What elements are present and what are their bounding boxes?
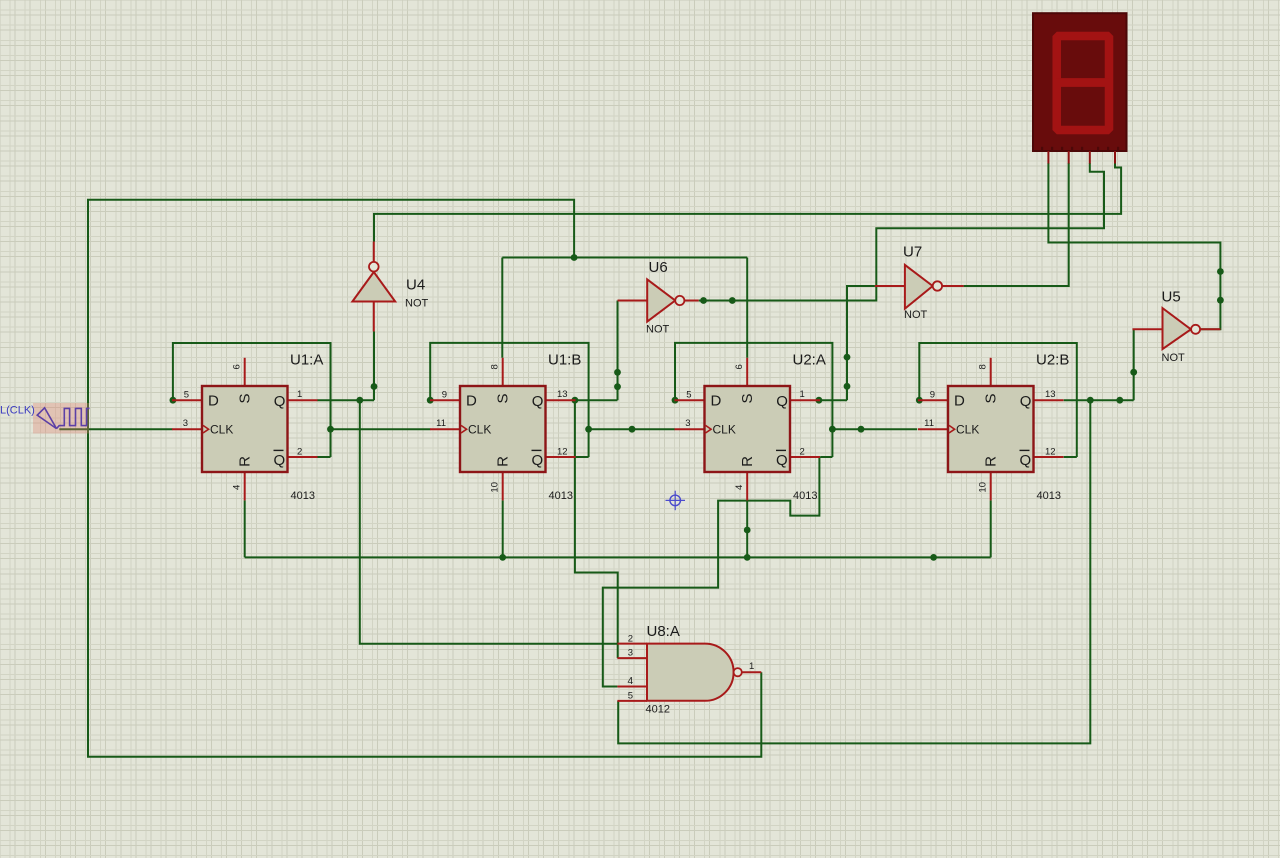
- svg-text:2: 2: [800, 447, 805, 458]
- svg-text:2: 2: [628, 634, 633, 645]
- svg-text:NOT: NOT: [646, 324, 670, 336]
- svg-text:U4: U4: [406, 277, 425, 294]
- svg-text:11: 11: [436, 418, 446, 429]
- svg-text:Q: Q: [532, 452, 544, 469]
- svg-text:D: D: [466, 393, 477, 410]
- svg-text:9: 9: [442, 389, 447, 400]
- svg-text:5: 5: [686, 389, 691, 400]
- svg-text:R: R: [237, 456, 254, 467]
- svg-text:Q: Q: [274, 393, 286, 410]
- svg-text:CLK: CLK: [713, 423, 736, 437]
- svg-text:4: 4: [627, 676, 633, 687]
- svg-text:12: 12: [1045, 447, 1056, 458]
- svg-text:9: 9: [930, 389, 935, 400]
- svg-text:Q: Q: [1020, 393, 1032, 410]
- svg-text:NOT: NOT: [1162, 352, 1186, 364]
- svg-text:10: 10: [978, 482, 989, 493]
- svg-text:D: D: [208, 393, 219, 410]
- svg-text:U2:B: U2:B: [1036, 352, 1069, 369]
- svg-text:U8:A: U8:A: [647, 623, 680, 640]
- svg-text:S: S: [983, 393, 1000, 403]
- svg-text:U1:B: U1:B: [548, 352, 581, 369]
- svg-text:D: D: [711, 393, 722, 410]
- svg-text:Q: Q: [274, 452, 286, 469]
- svg-text:4: 4: [232, 485, 243, 490]
- svg-text:4012: 4012: [646, 704, 670, 716]
- svg-text:4013: 4013: [291, 490, 315, 502]
- svg-text:D: D: [954, 393, 965, 410]
- svg-text:3: 3: [183, 418, 188, 429]
- svg-text:13: 13: [1045, 389, 1056, 400]
- svg-text:3: 3: [628, 648, 633, 659]
- svg-text:1: 1: [297, 389, 302, 400]
- svg-text:2: 2: [297, 447, 302, 458]
- svg-text:R: R: [983, 456, 1000, 467]
- svg-text:4013: 4013: [793, 490, 817, 502]
- svg-text:R: R: [495, 456, 512, 467]
- svg-text:1: 1: [800, 389, 805, 400]
- svg-text:CLK: CLK: [210, 423, 233, 437]
- svg-text:CLK: CLK: [468, 423, 491, 437]
- svg-text:4013: 4013: [549, 490, 573, 502]
- svg-text:1: 1: [749, 661, 754, 672]
- svg-text:4013: 4013: [1037, 490, 1061, 502]
- svg-text:U6: U6: [649, 259, 668, 276]
- svg-text:Q: Q: [776, 393, 788, 410]
- svg-text:Q: Q: [776, 452, 788, 469]
- svg-text:5: 5: [184, 389, 189, 400]
- svg-text:L(CLK): L(CLK): [0, 405, 35, 417]
- svg-text:Q: Q: [532, 393, 544, 410]
- svg-text:CLK: CLK: [956, 423, 979, 437]
- svg-text:6: 6: [232, 364, 243, 369]
- svg-text:U7: U7: [903, 244, 922, 261]
- svg-text:NOT: NOT: [405, 298, 429, 310]
- svg-text:8: 8: [490, 364, 501, 369]
- svg-text:U1:A: U1:A: [290, 352, 323, 369]
- svg-text:13: 13: [557, 389, 568, 400]
- svg-text:U5: U5: [1162, 289, 1181, 306]
- svg-text:S: S: [237, 393, 254, 403]
- svg-text:NOT: NOT: [904, 309, 928, 321]
- svg-text:6: 6: [734, 364, 745, 369]
- svg-text:U2:A: U2:A: [793, 352, 826, 369]
- svg-text:S: S: [739, 393, 756, 403]
- svg-text:12: 12: [557, 447, 568, 458]
- svg-text:4: 4: [734, 485, 745, 490]
- svg-text:8: 8: [978, 364, 989, 369]
- svg-text:3: 3: [685, 418, 690, 429]
- svg-text:R: R: [739, 456, 756, 467]
- svg-text:Q: Q: [1020, 452, 1032, 469]
- svg-text:10: 10: [490, 482, 501, 493]
- svg-text:11: 11: [924, 418, 934, 429]
- svg-text:S: S: [495, 393, 512, 403]
- svg-text:5: 5: [628, 691, 633, 702]
